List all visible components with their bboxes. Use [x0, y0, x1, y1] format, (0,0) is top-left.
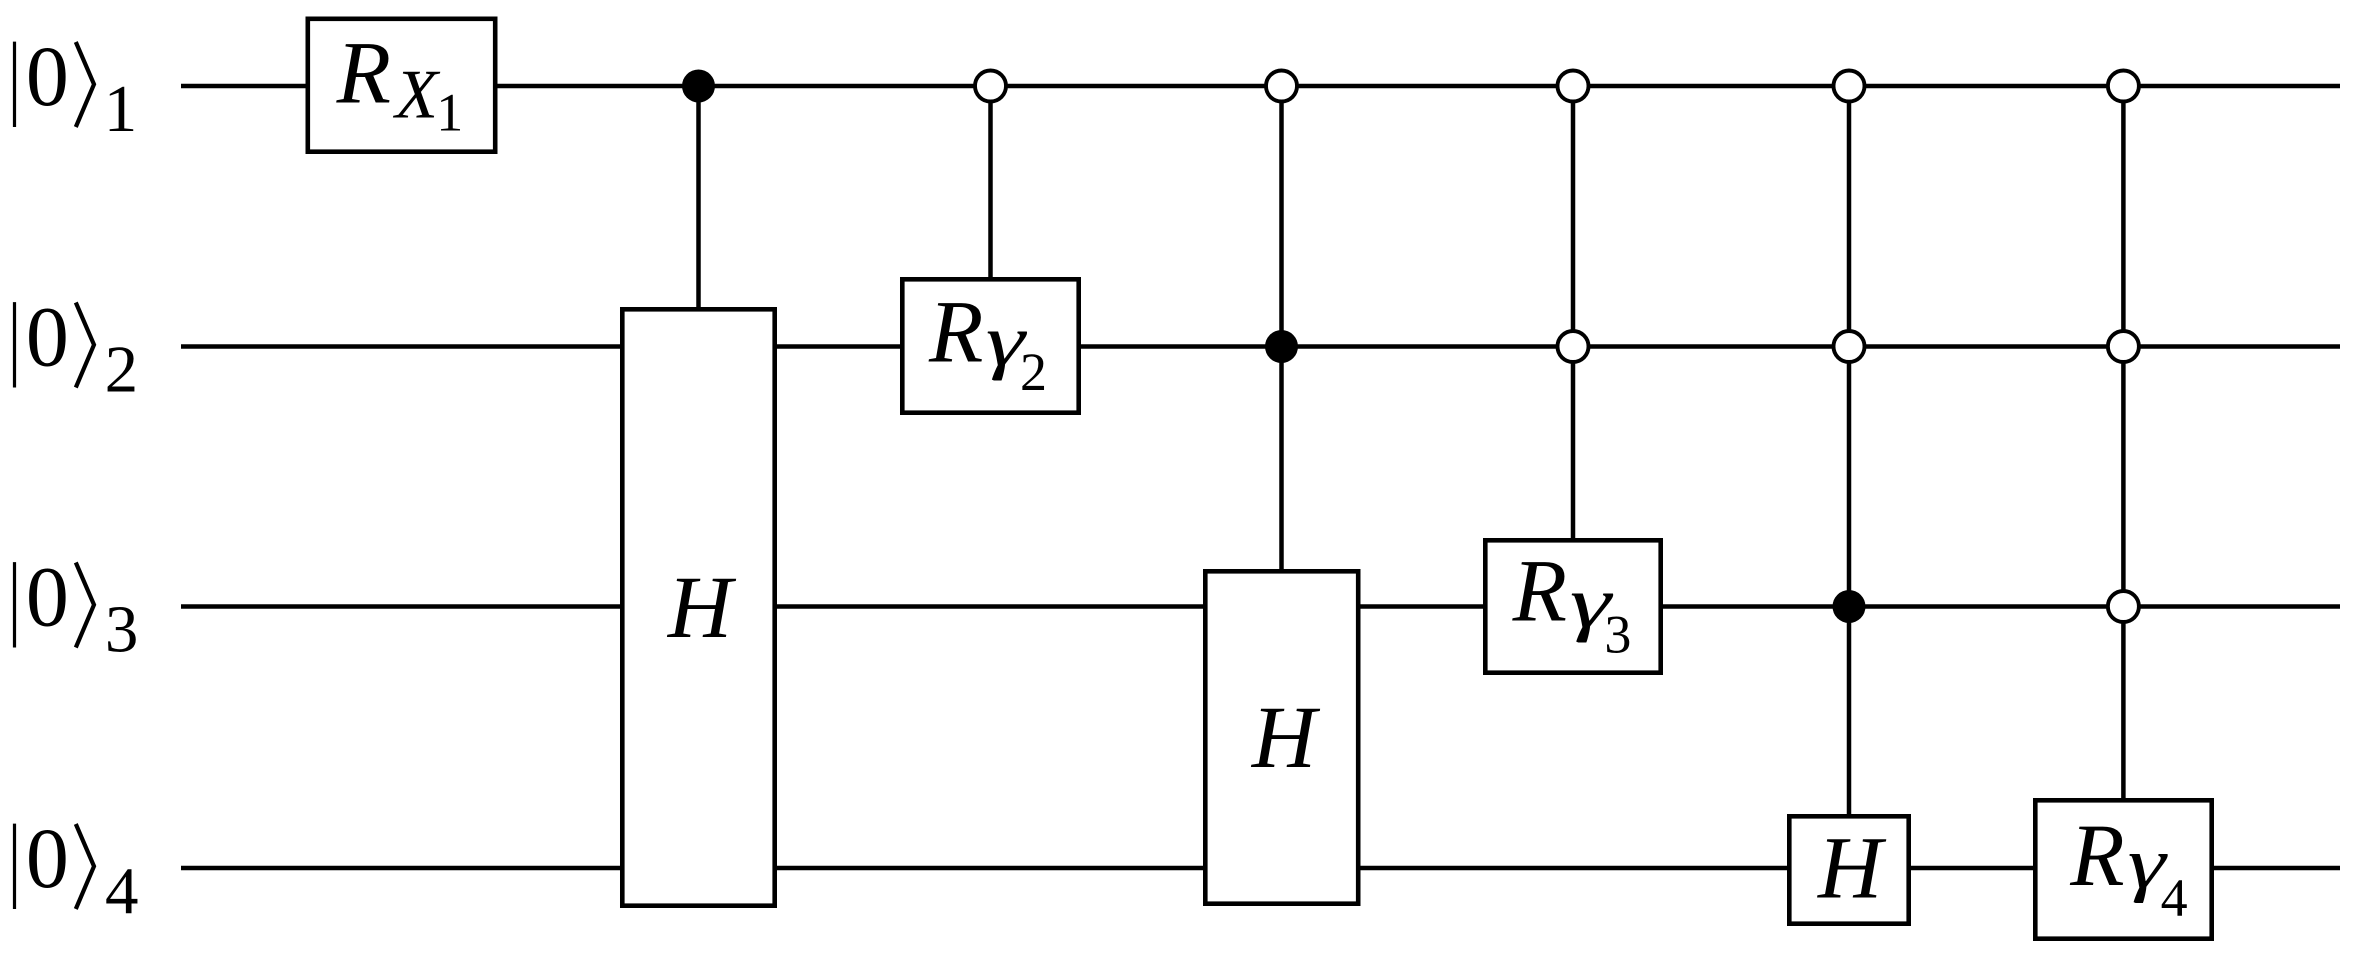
- svg-text:0: 0: [26, 810, 69, 906]
- gate RX1 box U1: [308, 19, 495, 152]
- control wire column 3 (q1 to H gate U4): [1279, 86, 1284, 572]
- svg-text:4: 4: [105, 854, 139, 928]
- gate RY4 box U7: [2035, 800, 2211, 938]
- open control circle column 2 on q1: [975, 71, 1006, 102]
- svg-text:0: 0: [26, 289, 69, 385]
- svg-text:2: 2: [1020, 342, 1047, 402]
- open control circle column 6 on q3: [2108, 591, 2139, 622]
- wire q4: [181, 866, 2340, 871]
- svg-text:1: 1: [104, 72, 138, 146]
- svg-text:4: 4: [2161, 868, 2188, 928]
- control wire column 4 (q1 to RY3 gate): [1571, 86, 1576, 541]
- wire q2: [181, 344, 2340, 349]
- gate H box U4 (spans q3-q4): [1205, 571, 1358, 903]
- gate H box U2 (spans q2-q4): [622, 309, 774, 905]
- open control circle column 4 on q1: [1558, 71, 1589, 102]
- open control circle column 4 on q2: [1558, 331, 1589, 362]
- svg-text:3: 3: [105, 593, 138, 667]
- svg-text:X: X: [392, 56, 441, 133]
- control wire column 5 (q1 to H gate U6): [1847, 86, 1852, 817]
- svg-text:0: 0: [26, 28, 69, 124]
- svg-text:R: R: [2069, 807, 2124, 905]
- gate RY2 box U3: [902, 279, 1078, 412]
- control wire column 2 (q1 to RY2 gate): [988, 86, 993, 280]
- svg-text:H: H: [1817, 820, 1887, 918]
- svg-text:3: 3: [1604, 605, 1631, 665]
- svg-text:R: R: [1512, 543, 1567, 641]
- svg-text:1: 1: [436, 82, 463, 142]
- qubit label |0>1: [15, 28, 138, 146]
- filled control dot column 5 on q3: [1833, 590, 1866, 623]
- open control circle column 6 on q1: [2108, 71, 2139, 102]
- open control circle column 5 on q2: [1834, 331, 1865, 362]
- gate RY3 box U5: [1485, 540, 1660, 672]
- open control circle column 3 on q1: [1266, 71, 1297, 102]
- svg-text:R: R: [336, 25, 391, 123]
- gate H box U6 (on q4): [1789, 816, 1908, 923]
- control wire column 6 (q1 to RY4 gate): [2121, 86, 2126, 801]
- open control circle column 6 on q2: [2108, 331, 2139, 362]
- wire q1: [181, 84, 2340, 89]
- svg-text:2: 2: [105, 333, 139, 407]
- qubit label |0>4: [15, 810, 139, 928]
- svg-text:R: R: [928, 283, 983, 381]
- svg-text:H: H: [1251, 689, 1321, 787]
- open control circle column 5 on q1: [1834, 71, 1865, 102]
- svg-text:0: 0: [26, 549, 69, 645]
- control wire column 1 (q1 to H gate U2): [696, 86, 701, 310]
- qubit label |0>2: [15, 289, 139, 407]
- svg-text:H: H: [667, 559, 737, 657]
- wire q3: [181, 604, 2340, 609]
- qubit label |0>3: [15, 549, 139, 667]
- filled control dot column 1 on q1: [682, 70, 715, 103]
- filled control dot column 3 on q2: [1265, 330, 1298, 363]
